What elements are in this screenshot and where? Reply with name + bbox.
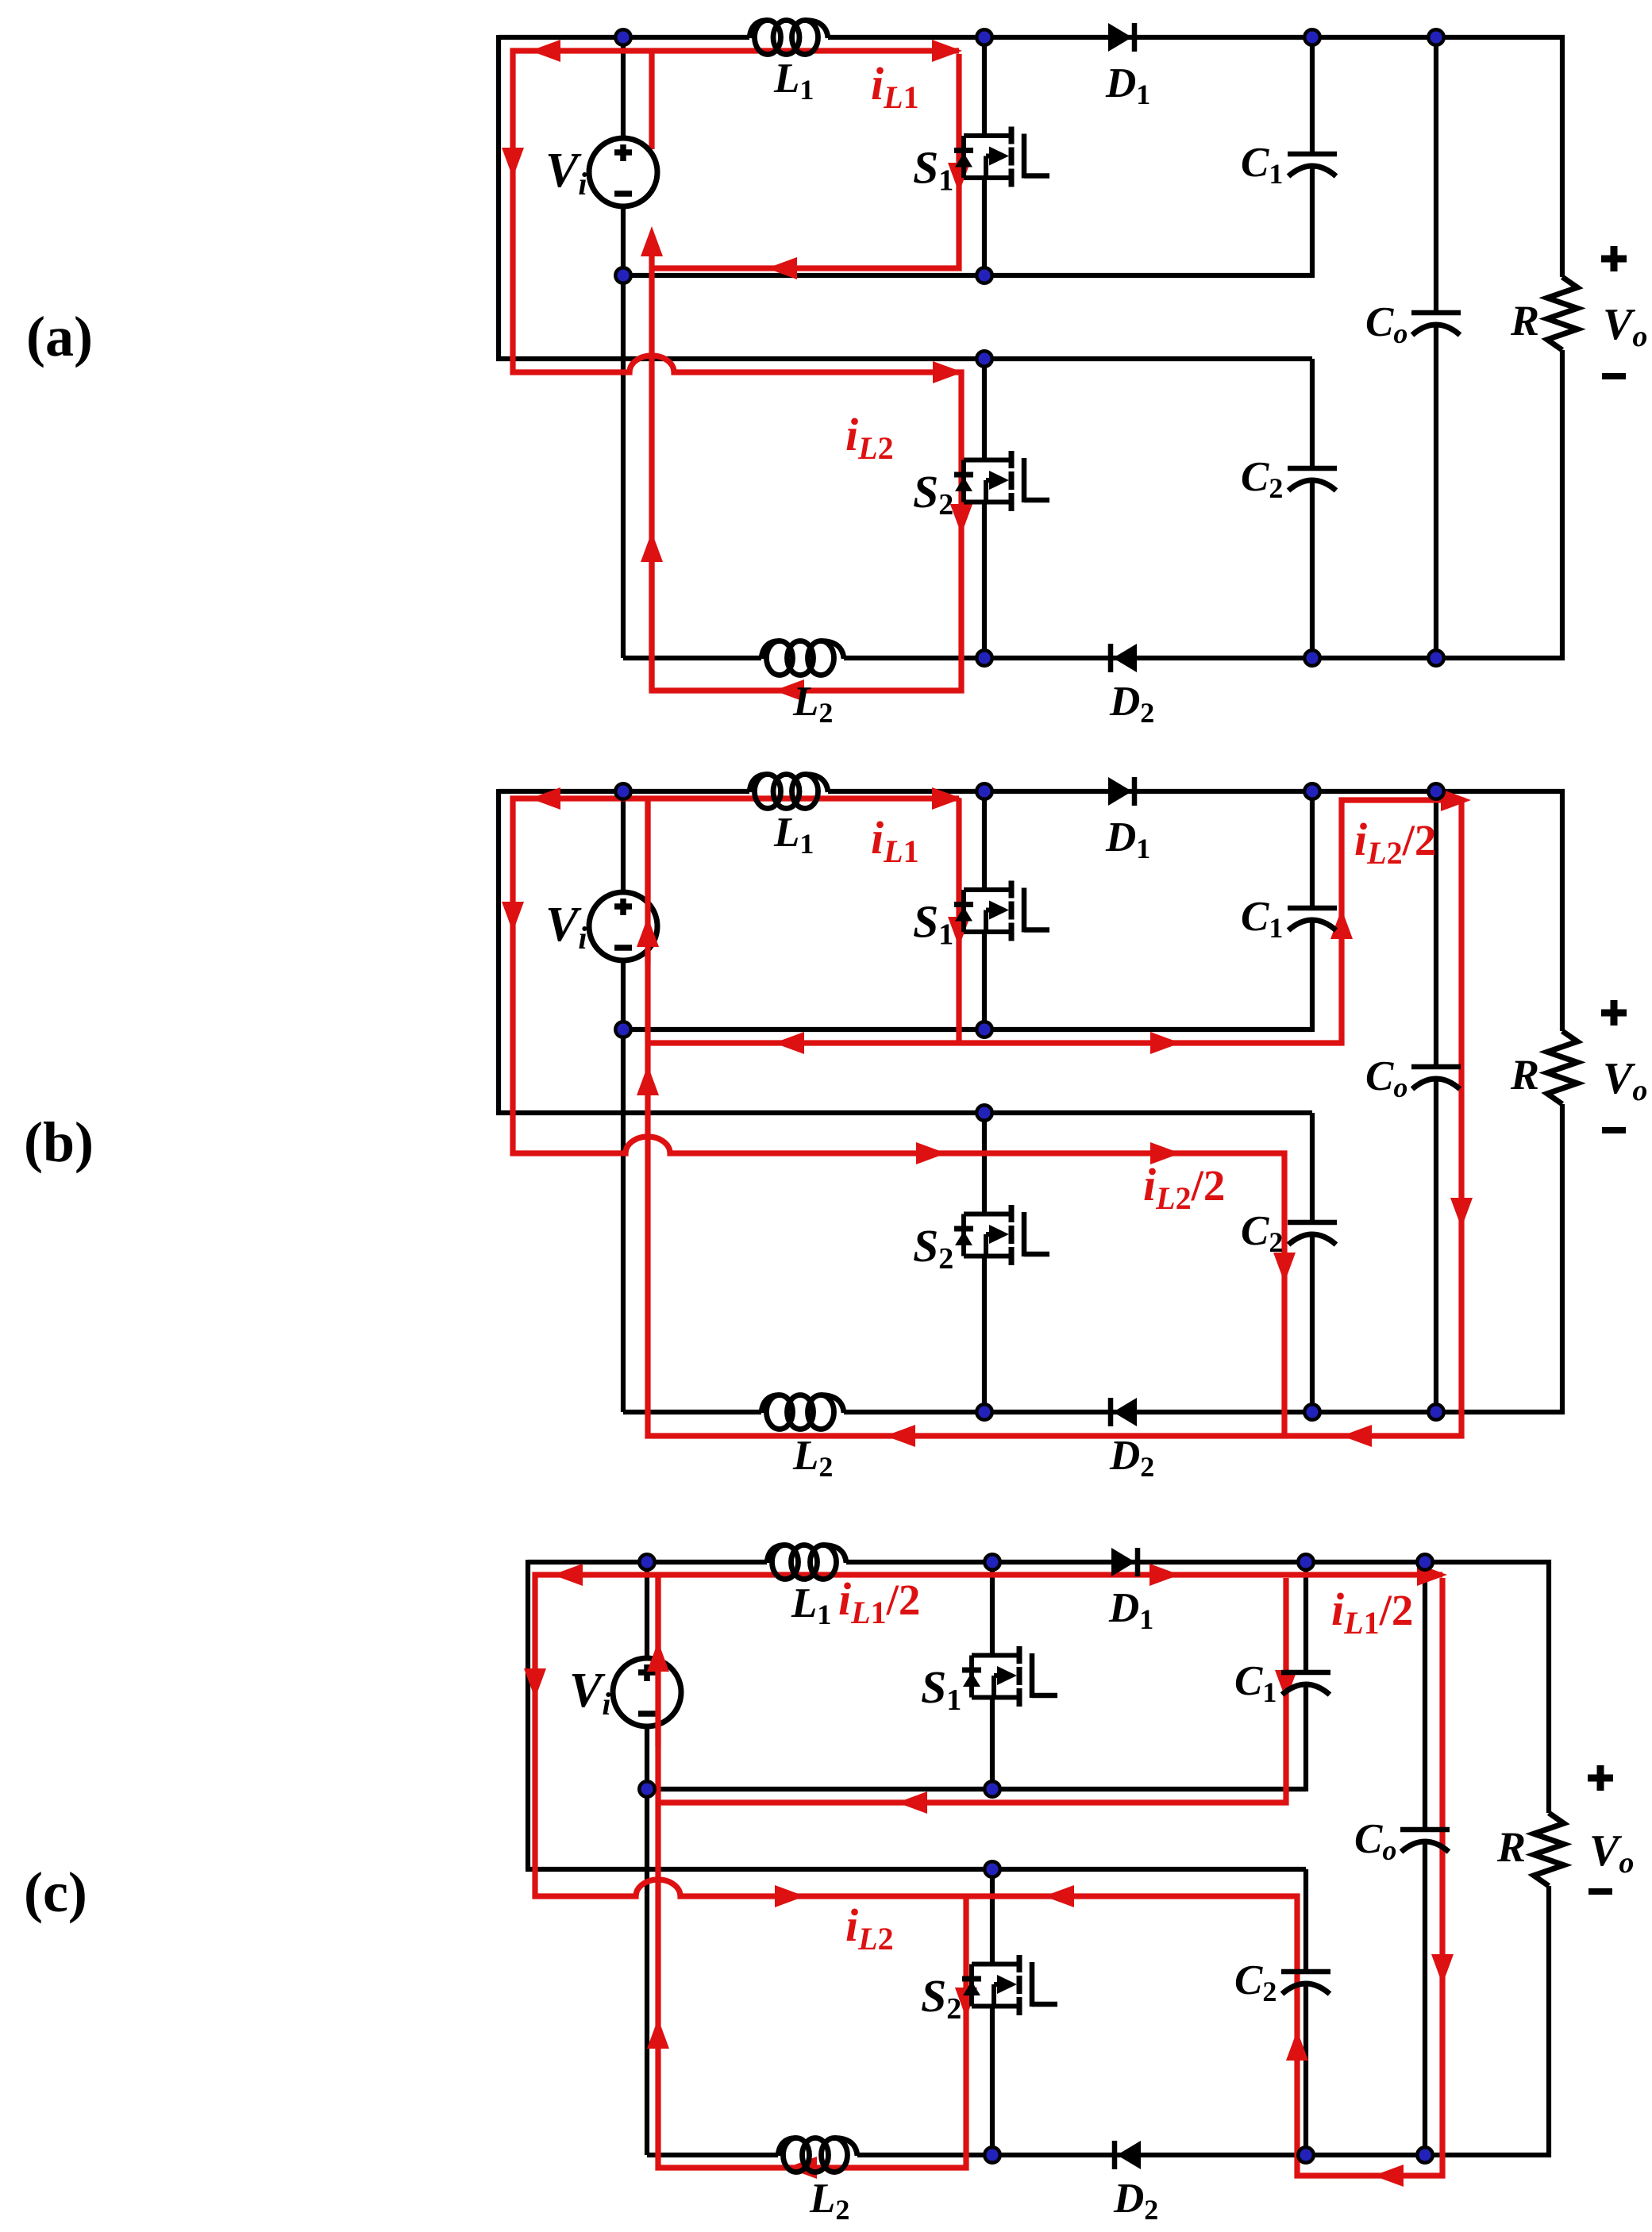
capacitor Co (b) — [1411, 1067, 1461, 1089]
svg-text:C2: C2 — [1234, 1957, 1277, 2007]
panel (c) bottom rail wire right segment — [857, 1886, 1549, 2155]
svg-text:Vo: Vo — [1603, 300, 1647, 353]
node dot 4 (c) — [1415, 1553, 1434, 1572]
voltage source Vi (b) — [589, 892, 657, 960]
svg-text:R: R — [1510, 297, 1539, 344]
node dot 4 (a) — [1427, 28, 1446, 47]
svg-text:D1: D1 — [1105, 814, 1150, 864]
node dot 6 (c) — [983, 1780, 1002, 1799]
panel (a) top rail wire left segment — [499, 35, 749, 40]
panel (a) S1 source wire — [982, 178, 987, 275]
output minus sign (a) — [1602, 373, 1626, 379]
panel (c) Co lower lead wire — [1423, 1841, 1427, 2155]
current path iL1 C1 return wire (c) — [658, 1578, 1297, 1814]
svg-text:Vi: Vi — [569, 1664, 610, 1722]
panel (a) phase-1 source return wire — [623, 273, 1312, 278]
inductor L1 (a) — [749, 21, 828, 55]
inductor L1 (b) — [749, 775, 828, 809]
svg-text:C2: C2 — [1241, 1208, 1283, 1258]
panel (b) phase-1 source return wire — [623, 1027, 1312, 1032]
svg-text:iL2: iL2 — [845, 1899, 894, 1957]
panel (a) S2 drain wire — [982, 359, 987, 460]
svg-text:C1: C1 — [1241, 894, 1283, 944]
node dot 7 (c) — [983, 1860, 1002, 1879]
red current arrow at S2 (c) — [955, 1988, 977, 2018]
node dot 7 (b) — [975, 1103, 994, 1122]
panel (b) Co lower lead wire — [1434, 1078, 1438, 1412]
svg-text:L1: L1 — [791, 1580, 831, 1630]
panel (b) input return wire — [496, 1110, 1312, 1115]
panel (a) bottom rail wire left segment — [623, 656, 761, 660]
svg-text:iL1/2: iL1/2 — [838, 1573, 920, 1630]
panel (c) Vi branch wire upper — [645, 1562, 649, 1661]
node dot 8 (b) — [975, 1403, 994, 1422]
panel (c) C2 lower lead wire — [1304, 1983, 1308, 2155]
transistor S1 (c) — [962, 1646, 1057, 1707]
node dot 9 (a) — [1303, 648, 1322, 668]
svg-text:L1: L1 — [773, 56, 814, 106]
panel (b) C2 upper lead wire — [1310, 1113, 1315, 1222]
node dot 6 (a) — [975, 266, 994, 285]
node dot 3 (a) — [1303, 28, 1322, 47]
node dot 10 (b) — [1427, 1403, 1446, 1422]
capacitor C1 (c) — [1281, 1672, 1330, 1695]
svg-text:R: R — [1510, 1051, 1539, 1099]
red wire Vi feed lower (a) — [641, 226, 663, 691]
diode D2 (b) — [1111, 1398, 1137, 1426]
capacitor C1 (a) — [1288, 154, 1337, 176]
svg-text:S1: S1 — [913, 142, 953, 198]
panel (c) left border wire — [526, 1560, 530, 1869]
node dot 10 (c) — [1415, 2145, 1434, 2165]
node dot 7 (a) — [975, 349, 994, 368]
panel (a) input return wire — [496, 356, 1312, 361]
panel (b) S1 drain wire — [982, 791, 987, 890]
diode D2 (a) — [1111, 644, 1137, 672]
red current arrow at S1 (b) — [948, 917, 970, 947]
panel (c) C1 lower lead wire — [1304, 1684, 1308, 1791]
node dot 1 (a) — [614, 28, 633, 47]
svg-text:(a): (a) — [26, 305, 93, 368]
transistor S2 (a) — [954, 451, 1049, 511]
inductor L2 (b) — [761, 1395, 844, 1430]
panel (a) S1 drain wire — [982, 37, 987, 136]
svg-text:L2: L2 — [792, 679, 833, 729]
red current arrow at S1 (a) — [948, 163, 970, 193]
svg-text:S1: S1 — [921, 1661, 961, 1717]
svg-text:iL2/2: iL2/2 — [1143, 1159, 1225, 1216]
panel (c) C2 upper lead wire — [1304, 1869, 1308, 1972]
panel (a) Vi branch wire lower — [621, 204, 626, 658]
node dot 5 (b) — [614, 1020, 633, 1039]
output plus sign (c) — [1588, 1775, 1613, 1782]
svg-text:D2: D2 — [1113, 2176, 1158, 2226]
svg-text:L1: L1 — [773, 810, 814, 860]
capacitor C2 (b) — [1288, 1222, 1337, 1245]
svg-text:iL2/2: iL2/2 — [1354, 814, 1436, 871]
capacitor C2 (c) — [1281, 1972, 1330, 1994]
current path iL2 S2 loop wire (c) — [647, 1575, 977, 2179]
panel (c) bottom rail wire left segment — [647, 2153, 778, 2157]
node dot 9 (b) — [1303, 1403, 1322, 1422]
panel (b) C1 lower lead wire — [1310, 919, 1315, 1032]
svg-text:C1: C1 — [1234, 1658, 1277, 1708]
resistor R (b) — [1547, 1031, 1577, 1104]
panel (c) Vi branch wire lower — [645, 1724, 649, 2155]
output plus sign (a) — [1601, 256, 1627, 263]
svg-text:D1: D1 — [1105, 60, 1150, 110]
panel (b) bottom rail wire left segment — [623, 1410, 761, 1414]
panel (a) left border wire — [496, 35, 501, 359]
red wire Vi feed overlay (b) — [637, 802, 659, 964]
panel (b) S2 source wire — [982, 1256, 987, 1413]
svg-text:R: R — [1496, 1823, 1526, 1871]
capacitor Co (c) — [1400, 1830, 1450, 1852]
svg-text:Co: Co — [1365, 299, 1407, 349]
node dot 2 (c) — [983, 1553, 1002, 1572]
svg-text:Vo: Vo — [1589, 1826, 1634, 1880]
svg-text:iL2: iL2 — [845, 409, 894, 466]
svg-text:Vi: Vi — [545, 144, 587, 202]
node dot 8 (c) — [983, 2145, 1002, 2165]
node dot 4 (b) — [1427, 782, 1446, 801]
node dot 10 (a) — [1427, 648, 1446, 668]
svg-text:L2: L2 — [809, 2176, 849, 2226]
svg-text:C2: C2 — [1241, 454, 1283, 504]
current path iL1 S1 wire (b) — [956, 799, 961, 1043]
diode D1 (b) — [1108, 777, 1134, 806]
svg-text:Vo: Vo — [1603, 1054, 1647, 1107]
node dot 1 (c) — [637, 1553, 657, 1572]
svg-text:(c): (c) — [24, 1861, 87, 1924]
current path iL1 return wire (a) — [652, 54, 959, 279]
panel (b) Co upper lead wire — [1434, 791, 1438, 1067]
diode D2 (c) — [1115, 2141, 1141, 2169]
panel (b) Vi branch wire lower — [621, 958, 626, 1412]
node dot 2 (a) — [975, 28, 994, 47]
svg-text:iL1: iL1 — [871, 812, 919, 869]
transistor S2 (c) — [962, 1955, 1057, 2015]
voltage source Vi (a) — [589, 138, 657, 206]
svg-text:L2: L2 — [792, 1433, 833, 1483]
node dot 6 (b) — [975, 1020, 994, 1039]
panel (b) S1 source wire — [982, 932, 987, 1029]
svg-text:(b): (b) — [24, 1110, 94, 1174]
current path iL2 charge wire (b) — [502, 787, 1296, 1436]
panel (c) top rail wire left segment — [528, 1560, 767, 1564]
node dot 2 (b) — [975, 782, 994, 801]
svg-text:D2: D2 — [1109, 1433, 1154, 1483]
diode D1 (a) — [1108, 23, 1134, 52]
transistor S2 (b) — [954, 1205, 1049, 1265]
panel (b) bottom rail wire right segment — [844, 1104, 1562, 1412]
svg-text:iL1: iL1 — [871, 58, 919, 115]
panel (c) top rail wire right segment — [846, 1562, 1549, 1813]
capacitor C1 (b) — [1288, 908, 1337, 930]
panel (b) top rail wire right segment — [828, 791, 1562, 1031]
voltage source Vi (c) — [613, 1658, 681, 1726]
current path iL1 main loop wire (c) — [524, 1564, 1454, 2187]
capacitor Co (a) — [1411, 313, 1461, 335]
svg-text:Vi: Vi — [545, 898, 587, 956]
output minus sign (c) — [1588, 1888, 1612, 1895]
output plus sign (b) — [1601, 1010, 1627, 1017]
panel (c) S2 source wire — [990, 2007, 995, 2156]
transistor S1 (a) — [954, 127, 1049, 187]
red wire Vi feed overlay (c) — [647, 1578, 669, 1746]
panel (a) Co upper lead wire — [1434, 37, 1438, 313]
panel (a) Vi branch wire upper — [621, 37, 626, 140]
svg-text:D2: D2 — [1109, 679, 1154, 729]
current path output loop wire (b) — [637, 789, 1473, 1447]
panel (c) phase-1 source return wire — [647, 1787, 1306, 1791]
panel (c) S1 source wire — [990, 1698, 995, 1790]
panel (a) S2 source wire — [982, 502, 987, 659]
panel (c) S2 drain wire — [990, 1869, 995, 1965]
panel (b) C2 lower lead wire — [1310, 1233, 1315, 1412]
panel (a) C1 lower lead wire — [1310, 165, 1315, 278]
svg-text:Co: Co — [1365, 1053, 1407, 1103]
panel (c) Co upper lead wire — [1423, 1562, 1427, 1830]
panel (a) top rail wire right segment — [828, 37, 1562, 277]
red wire Vi feed upper (a) — [649, 51, 654, 149]
panel (c) input return wire — [526, 1867, 1306, 1872]
node dot 1 (b) — [614, 782, 633, 801]
node dot 9 (c) — [1296, 2145, 1315, 2165]
panel (b) S2 drain wire — [982, 1113, 987, 1214]
panel (c) S1 drain wire — [990, 1562, 995, 1656]
resistor R (a) — [1547, 277, 1577, 350]
panel (c) C1 upper lead wire — [1304, 1562, 1308, 1672]
svg-text:S1: S1 — [913, 896, 953, 952]
inductor L2 (a) — [761, 641, 844, 675]
panel (a) bottom rail wire right segment — [844, 350, 1562, 658]
svg-text:C1: C1 — [1241, 140, 1283, 190]
svg-text:Co: Co — [1354, 1816, 1396, 1866]
diode D1 (c) — [1111, 1548, 1138, 1576]
node dot 5 (a) — [614, 266, 633, 285]
svg-text:S2: S2 — [913, 466, 953, 521]
inductor L2 (c) — [778, 2138, 857, 2172]
panel (a) Co lower lead wire — [1434, 324, 1438, 658]
inductor L1 (c) — [767, 1545, 846, 1580]
panel (b) left border wire — [496, 789, 501, 1113]
current path iL2 loop wire (a) — [502, 40, 972, 702]
resistor R (c) — [1534, 1813, 1564, 1886]
svg-text:S2: S2 — [913, 1220, 953, 1276]
node dot 5 (c) — [637, 1780, 657, 1799]
svg-text:D1: D1 — [1108, 1585, 1153, 1635]
node dot 3 (b) — [1303, 782, 1322, 801]
transistor S1 (b) — [954, 881, 1049, 941]
node dot 3 (c) — [1296, 1553, 1315, 1572]
output minus sign (b) — [1602, 1127, 1626, 1133]
panel (a) C1 upper lead wire — [1310, 37, 1315, 154]
panel (b) top rail wire left segment — [499, 789, 749, 794]
red current arrow at S2 (a) — [950, 504, 972, 534]
svg-text:S2: S2 — [921, 1970, 961, 2026]
panel (a) C2 lower lead wire — [1310, 479, 1315, 658]
panel (a) C2 upper lead wire — [1310, 359, 1315, 468]
panel (b) C1 upper lead wire — [1310, 791, 1315, 908]
node dot 8 (a) — [975, 648, 994, 668]
capacitor C2 (a) — [1288, 468, 1337, 491]
panel (b) Vi branch wire upper — [621, 791, 626, 895]
svg-text:iL1/2: iL1/2 — [1331, 1584, 1413, 1641]
